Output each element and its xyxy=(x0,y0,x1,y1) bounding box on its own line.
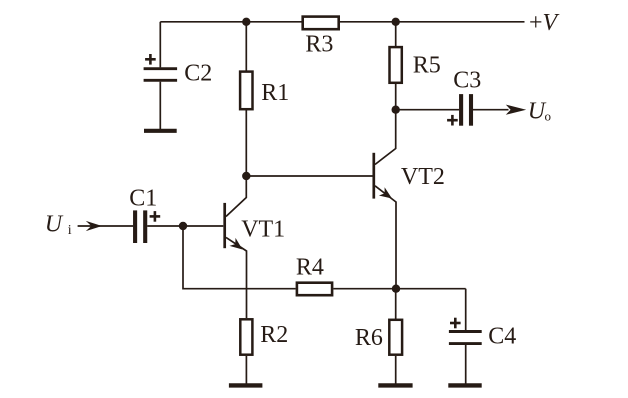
label C2 plus xyxy=(145,54,156,65)
wire output to C3 xyxy=(396,109,459,111)
label C1 plus xyxy=(150,211,161,222)
transistor VT1 xyxy=(225,176,247,318)
wire base node down to feedback row xyxy=(183,226,296,289)
resistor R3 xyxy=(303,17,339,30)
wire top rail right segment xyxy=(340,21,525,23)
capacitor C3 xyxy=(461,94,471,126)
resistor R4 xyxy=(297,283,332,296)
VT2 emitter diagonal xyxy=(375,186,396,289)
svg-text:VT1: VT1 xyxy=(241,217,285,243)
wire input xyxy=(78,225,134,227)
wire R1 top xyxy=(245,22,247,71)
svg-text:R5: R5 xyxy=(413,52,441,78)
svg-text:+V: +V xyxy=(529,10,560,36)
capacitor C4 xyxy=(449,332,482,344)
resistor R6 xyxy=(389,320,402,355)
wire top rail left segment xyxy=(160,21,301,23)
node VT1 base junction xyxy=(179,222,187,230)
node output junction xyxy=(392,106,400,114)
svg-text:U: U xyxy=(45,212,64,238)
VT2 collector wire xyxy=(375,110,396,165)
svg-text:R4: R4 xyxy=(296,255,324,281)
capacitor C1 xyxy=(135,210,145,243)
node rail-R1 junction xyxy=(242,18,250,26)
wire C2 bottom xyxy=(159,82,161,129)
svg-text:i: i xyxy=(68,223,72,238)
svg-text:R6: R6 xyxy=(355,325,383,351)
wire R5 bottom xyxy=(395,84,397,110)
VT1 base bar xyxy=(223,203,226,248)
input arrowhead xyxy=(86,221,102,231)
svg-text:C1: C1 xyxy=(129,186,157,212)
ground under R6 xyxy=(378,383,412,387)
wire R2 bottom xyxy=(245,356,247,384)
wire VT1 collector to VT2 base xyxy=(246,175,372,177)
svg-text:R1: R1 xyxy=(261,80,289,106)
wire R6 bottom xyxy=(395,356,397,384)
svg-text:R3: R3 xyxy=(305,31,333,57)
VT1 emitter diagonal xyxy=(226,237,247,318)
VT1 emitter arrowhead xyxy=(230,238,243,250)
node VT1 collector junction xyxy=(242,172,250,180)
ground under C2 xyxy=(144,129,177,133)
svg-text:R2: R2 xyxy=(260,322,288,348)
resistor R1 xyxy=(240,72,252,110)
svg-text:VT2: VT2 xyxy=(401,164,445,190)
ground under R2 xyxy=(229,383,263,387)
wire C2 top xyxy=(159,22,161,68)
VT1 collector wire xyxy=(226,176,246,217)
svg-text:C2: C2 xyxy=(184,61,212,87)
wire C4 bottom xyxy=(465,345,467,384)
label C4 plus xyxy=(450,318,461,329)
wire R1 bottom xyxy=(245,110,247,177)
wire C4 top xyxy=(465,289,467,330)
svg-text:o: o xyxy=(545,108,552,123)
svg-text:C4: C4 xyxy=(488,324,516,350)
capacitor C2 xyxy=(144,69,178,81)
resistor R2 xyxy=(240,319,252,354)
VT2 emitter arrowhead xyxy=(379,187,392,198)
label C3 plus xyxy=(447,115,458,126)
output arrowhead xyxy=(506,105,526,115)
wire R5 top xyxy=(395,22,397,47)
resistor R5 xyxy=(390,47,402,83)
VT2 base bar xyxy=(372,153,375,199)
ground under C4 xyxy=(448,383,481,387)
wire R6 top xyxy=(395,289,397,319)
transistor VT2 xyxy=(374,110,396,289)
node rail-R5 junction xyxy=(392,18,400,26)
wire C3 to output arrow xyxy=(473,109,509,111)
wire R4 to C4 drop xyxy=(333,288,465,290)
wire C1 to base node xyxy=(147,225,223,227)
svg-text:C3: C3 xyxy=(453,67,481,93)
node VT2 emitter junction xyxy=(392,285,400,293)
